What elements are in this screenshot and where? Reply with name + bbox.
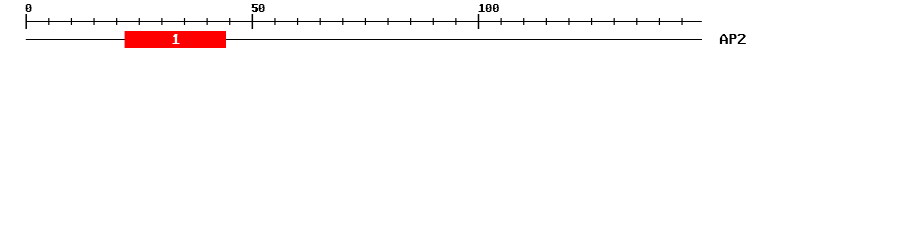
track label AP2: P	[730, 34, 737, 44]
background	[0, 0, 900, 58]
ruler major tick 100	[478, 14, 480, 29]
domain box (red, feature 1)	[125, 31, 226, 48]
domain number 1 (white)	[173, 34, 180, 44]
ruler label 0	[26, 4, 32, 12]
ruler baseline (scale 0-150)	[26, 21, 702, 22]
ruler label 50	[252, 4, 265, 12]
ruler major tick 50	[252, 14, 254, 29]
track label AP2: 2	[738, 34, 746, 44]
track connector line	[26, 39, 702, 40]
ruler major tick 0	[25, 14, 27, 29]
ruler label 100	[479, 4, 499, 12]
track label AP2: A	[720, 34, 728, 44]
ruler minor ticks (every 5 units)	[48, 18, 682, 25]
